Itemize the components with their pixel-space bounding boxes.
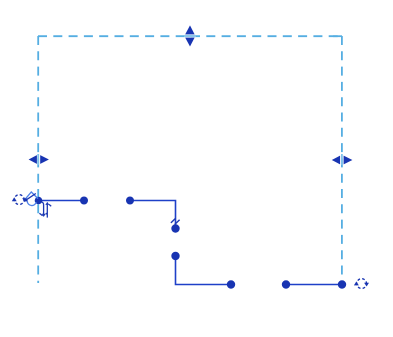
constraint slashes near dot B2 xyxy=(171,218,180,224)
wall segment C xyxy=(176,256,232,285)
drag control left edge (left/right triangles) xyxy=(29,155,49,164)
rotate control left xyxy=(12,195,27,205)
crop boundary left edge xyxy=(37,36,39,283)
wall segment D xyxy=(286,284,342,286)
endpoint dot C2 xyxy=(227,280,235,288)
crop boundary right edge xyxy=(341,36,343,284)
drag control right edge (left/right triangles) xyxy=(332,156,353,165)
drag control top (up/down triangles) xyxy=(185,25,194,46)
flip control (two opposing vertical arrows) xyxy=(39,202,51,218)
flip/align diamond glyph xyxy=(26,192,38,206)
wall segment B xyxy=(130,201,176,229)
endpoint dot C1 xyxy=(171,252,179,260)
rotate control right xyxy=(354,279,369,289)
crop boundary top edge corner dash xyxy=(333,35,342,37)
endpoint dot B1 xyxy=(126,197,134,205)
crop boundary dash under right drag control xyxy=(341,154,343,165)
crop boundary dash under left drag control xyxy=(37,154,39,165)
crop boundary top edge xyxy=(38,35,342,37)
diagonal arrow through diamond xyxy=(24,194,36,202)
endpoint dot D2 xyxy=(338,280,346,288)
endpoint dot A1 xyxy=(35,197,43,205)
endpoint dot A2 xyxy=(80,197,88,205)
endpoint dot D1 xyxy=(282,280,290,288)
wall segment A xyxy=(39,200,85,202)
crop boundary dash under top drag control xyxy=(184,35,196,37)
endpoint dot B2 xyxy=(171,224,179,232)
